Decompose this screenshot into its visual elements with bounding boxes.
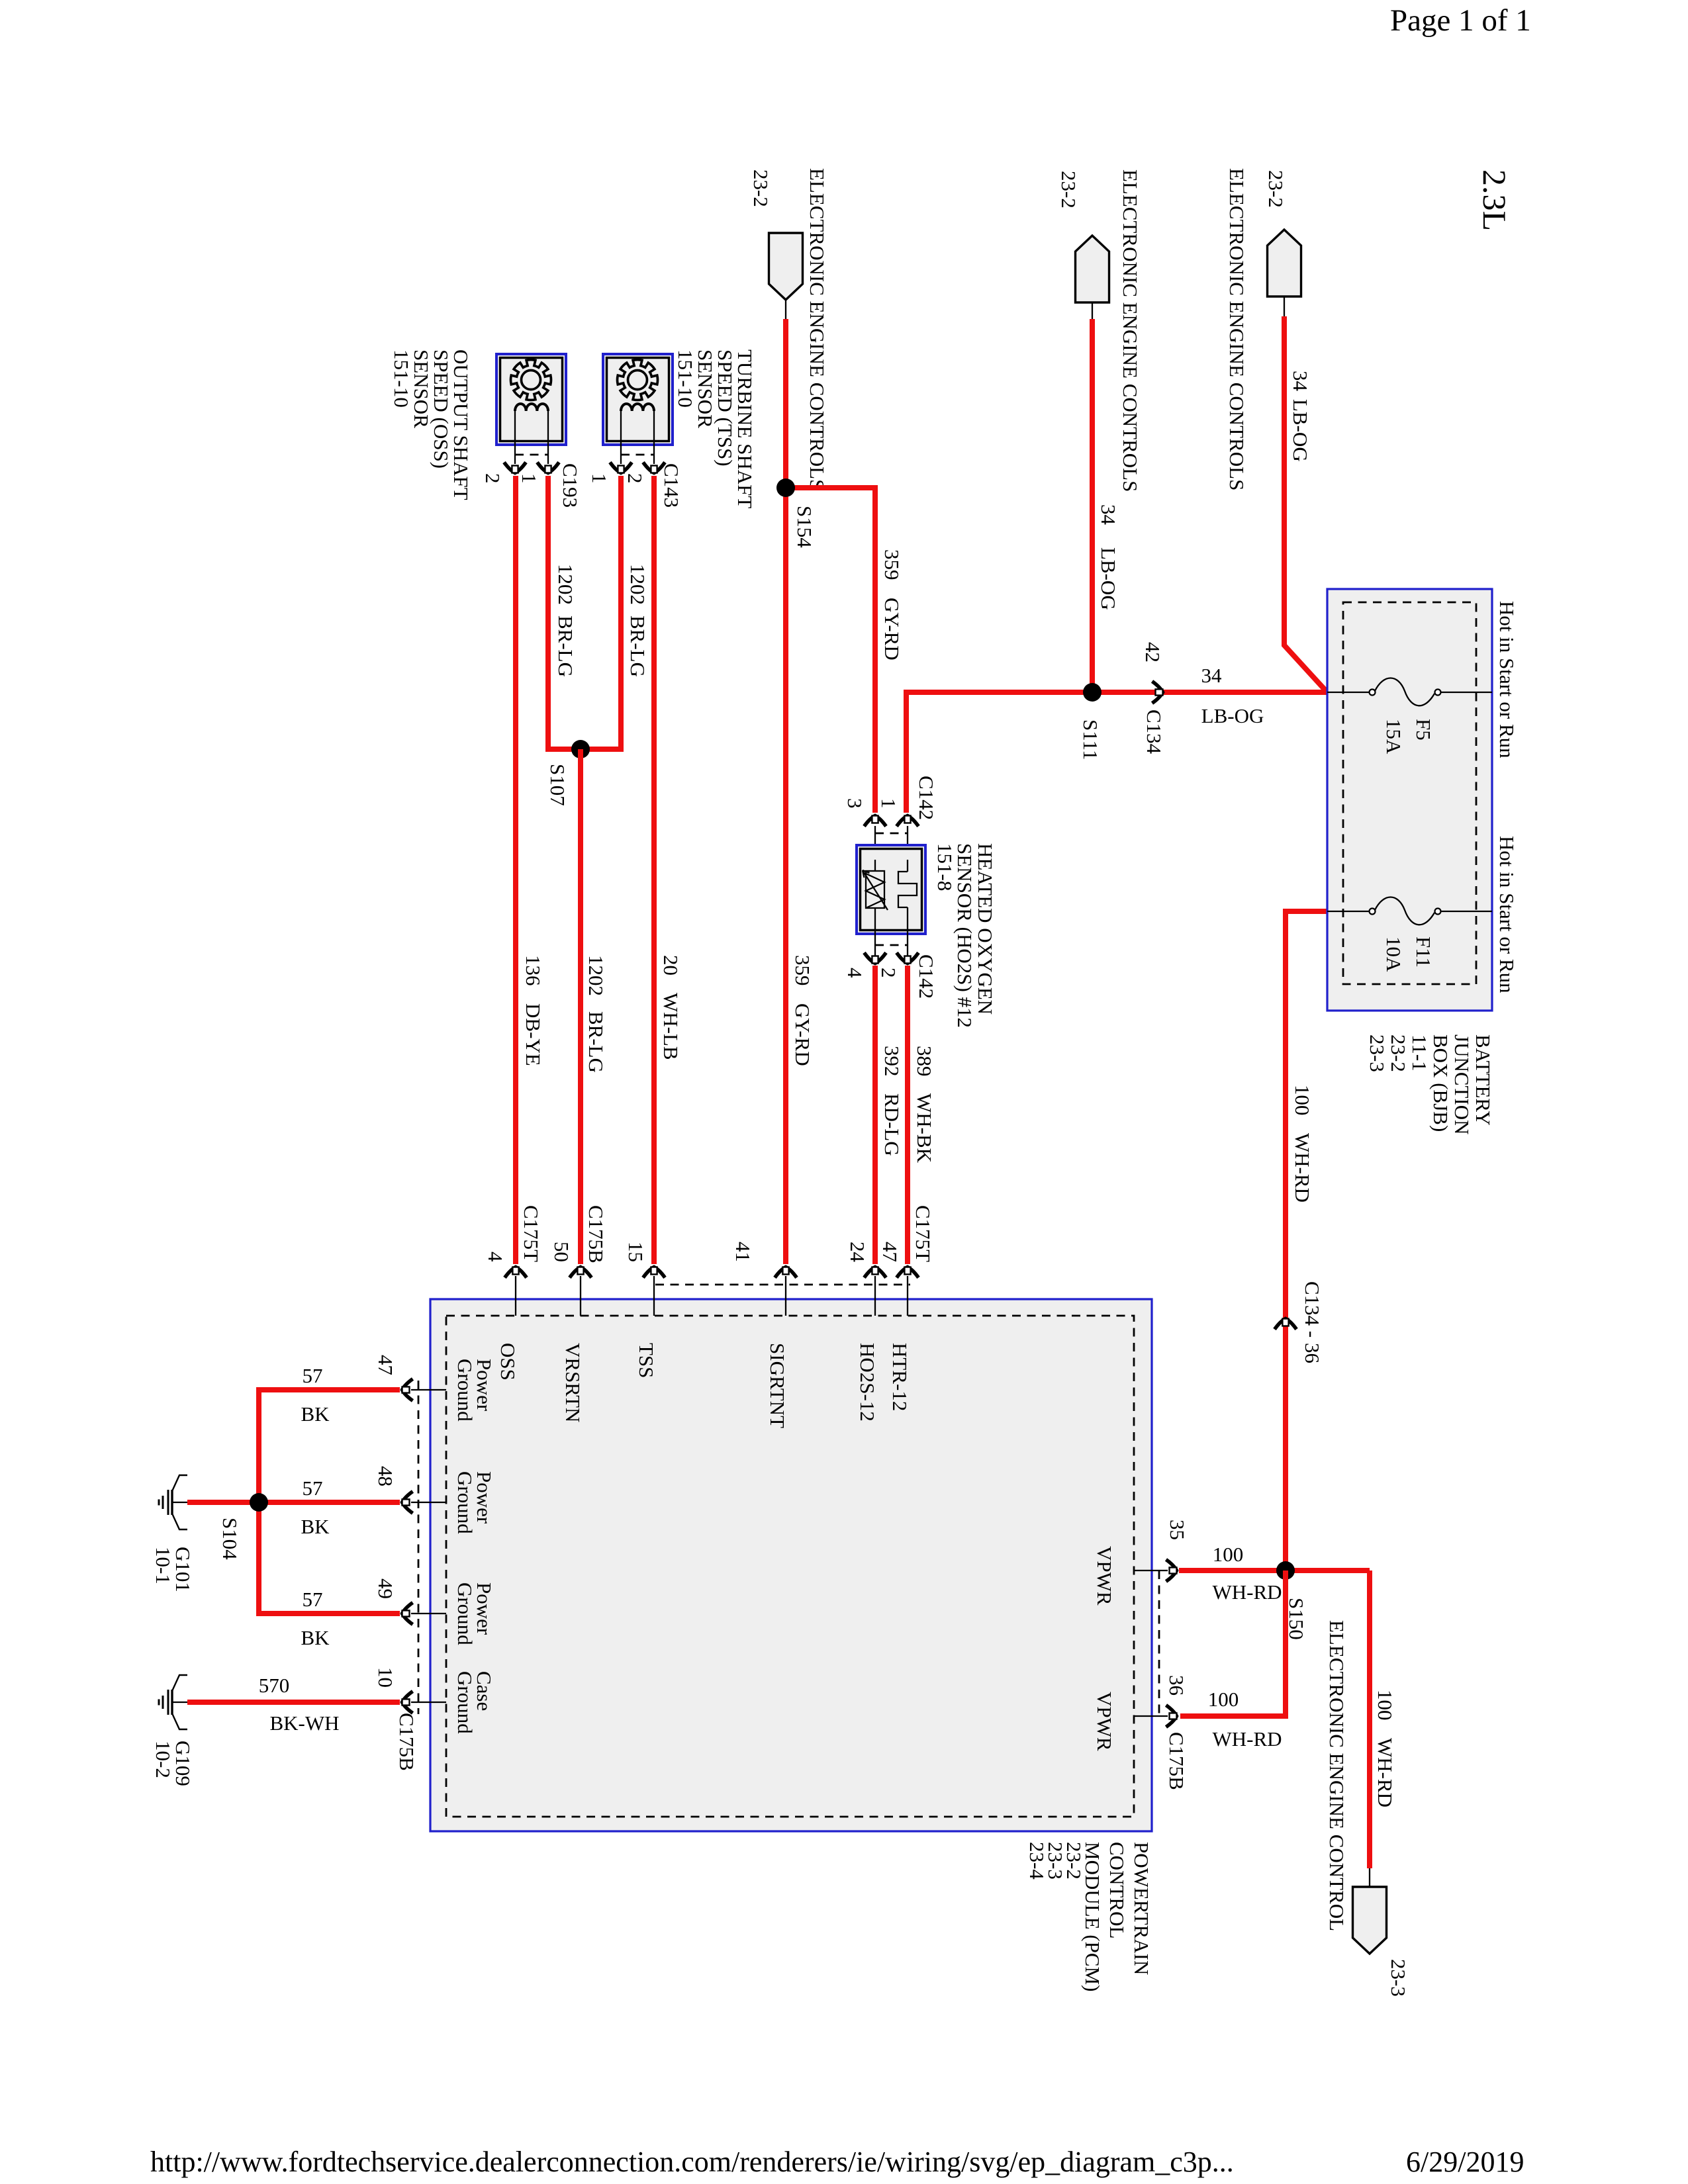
svg-text:57: 57 [303, 1588, 323, 1611]
svg-text:48: 48 [374, 1466, 397, 1486]
svg-text:Ground: Ground [453, 1671, 477, 1734]
svg-text:10-2: 10-2 [152, 1741, 175, 1778]
svg-text:ELECTRONIC ENGINE CONTROL: ELECTRONIC ENGINE CONTROL [1325, 1620, 1348, 1931]
svg-text:POWERTRAIN: POWERTRAIN [1130, 1842, 1153, 1975]
PCM pin 24 (HO2S-12) [865, 1267, 886, 1278]
wire stem pennant2 [1092, 302, 1093, 319]
fuse F11 10A [1327, 911, 1369, 912]
svg-text:50: 50 [550, 1242, 573, 1262]
sensor OSS box [496, 354, 566, 445]
OSS leads [514, 411, 516, 464]
svg-text:JUNCTION: JUNCTION [1450, 1034, 1474, 1135]
TSS coil [621, 404, 654, 411]
svg-text:BATTERY: BATTERY [1472, 1034, 1495, 1126]
node S107 [571, 740, 590, 758]
ground G109 [159, 1675, 187, 1729]
svg-text:151-10: 151-10 [674, 349, 697, 408]
svg-text:2: 2 [624, 473, 647, 484]
svg-text:Ground: Ground [453, 1359, 477, 1422]
wire 389 WH-BK HO2S C142-2 to PCM pin 47 [905, 966, 910, 1264]
OSS coil [515, 404, 548, 411]
svg-text:23-4: 23-4 [1025, 1842, 1049, 1880]
svg-text:BK: BK [301, 1626, 330, 1649]
PCM pin 41 (SIGRTNT) [775, 1267, 797, 1278]
svg-text:BK: BK [301, 1515, 330, 1538]
node S111 [1083, 683, 1102, 702]
svg-text:11-1: 11-1 [1408, 1034, 1431, 1071]
svg-text:WH-RD: WH-RD [1374, 1738, 1397, 1807]
svg-text:2.3L: 2.3L [1476, 169, 1513, 231]
svg-text:Page 1 of 1: Page 1 of 1 [1390, 3, 1531, 38]
PCM pin 4 (OSS) [505, 1267, 527, 1278]
PCM pin 35 (VPWR) [1166, 1560, 1177, 1582]
svg-text:C134 - 36: C134 - 36 [1301, 1281, 1324, 1363]
HO2S sensing element (crossed box with arrow) [866, 871, 884, 908]
svg-text:1: 1 [877, 798, 900, 809]
svg-text:WH-BK: WH-BK [913, 1093, 936, 1163]
svg-text:LB-OG: LB-OG [1201, 704, 1264, 727]
PCM pin 49 (Power Ground) [402, 1603, 413, 1625]
HO2S heater element (meander) [898, 872, 917, 907]
svg-text:LB-OG: LB-OG [1097, 547, 1120, 610]
svg-text:WH-RD: WH-RD [1212, 1727, 1282, 1751]
svg-text:C175B: C175B [395, 1713, 418, 1771]
svg-text:TSS: TSS [635, 1343, 658, 1378]
off-page connector arrow 23-2 (to S111 / ELECTRONIC ENGINE CONTROLS) [1076, 236, 1109, 302]
wire 34 LB-OG pennant2 to S111 [1090, 319, 1095, 692]
svg-text:42: 42 [1141, 642, 1164, 662]
connector C142 bottom pins [865, 953, 886, 964]
svg-text:151-10: 151-10 [390, 349, 413, 408]
svg-text:57: 57 [303, 1477, 323, 1500]
svg-text:BR-LG: BR-LG [626, 615, 649, 677]
svg-text:WH-LB: WH-LB [659, 993, 682, 1060]
svg-text:DB-YE: DB-YE [522, 1003, 545, 1066]
wire 100 WH-RD S150 down to pin 36 [1180, 1570, 1286, 1716]
svg-text:Ground: Ground [453, 1471, 477, 1534]
connector C134 arrow (42) [1152, 682, 1163, 704]
svg-text:15A: 15A [1382, 719, 1405, 754]
connector C175B right dashed boundary [1158, 1570, 1160, 1716]
svg-text:C134: C134 [1143, 709, 1166, 754]
svg-text:100: 100 [1374, 1690, 1397, 1721]
svg-text:24: 24 [846, 1242, 869, 1263]
svg-text:23-2: 23-2 [1387, 1034, 1410, 1072]
wire stem pennant3 [1284, 296, 1285, 316]
wire stem pennant1 [785, 300, 786, 319]
node S104 [250, 1493, 268, 1512]
ground G101 [159, 1475, 187, 1529]
svg-text:47: 47 [374, 1355, 397, 1375]
svg-text:47: 47 [878, 1242, 902, 1262]
svg-text:C175B: C175B [585, 1205, 608, 1263]
connector C193 pins [504, 463, 526, 473]
svg-text:49: 49 [374, 1578, 397, 1599]
svg-text:F5: F5 [1412, 719, 1435, 741]
wire 392 RD-LG HO2S C142-4 to PCM pin 24 [872, 966, 878, 1264]
svg-text:6/29/2019: 6/29/2019 [1406, 2146, 1524, 2178]
svg-text:23-2: 23-2 [1264, 170, 1288, 208]
OSS gear icon [511, 360, 551, 400]
svg-text:34: 34 [1097, 504, 1120, 525]
svg-text:100: 100 [1208, 1688, 1239, 1711]
svg-text:S104: S104 [218, 1518, 242, 1560]
svg-text:1: 1 [588, 473, 611, 484]
svg-text:41: 41 [731, 1242, 755, 1262]
svg-text:15: 15 [624, 1242, 647, 1262]
svg-text:HTR-12: HTR-12 [888, 1343, 912, 1411]
svg-text:S111: S111 [1079, 719, 1102, 760]
wire 1202 BR-LG OSS-1 to S107 [548, 476, 581, 749]
wire 359 GY-RD branch S154 to HO2S C142-3 [786, 488, 875, 813]
svg-text:2: 2 [481, 473, 504, 484]
svg-text:ELECTRONIC ENGINE CONTROLS: ELECTRONIC ENGINE CONTROLS [1119, 169, 1142, 492]
svg-text:23-3: 23-3 [1366, 1034, 1389, 1072]
PCM pin 47 (Power Ground) [402, 1379, 413, 1401]
wire 34 LB-OG horizontal S111 to BJB, and down to HO2S C142-1 [906, 692, 1327, 813]
wire 1202 BR-LG TSS-2 to S107 [581, 476, 621, 749]
svg-text:36: 36 [1165, 1675, 1188, 1696]
svg-text:RD-LG: RD-LG [880, 1093, 904, 1156]
svg-text:34: 34 [1201, 664, 1223, 687]
svg-text:SIGRTNT: SIGRTNT [766, 1343, 789, 1428]
svg-text:http://www.fordtechservice.dea: http://www.fordtechservice.dealerconnect… [150, 2146, 1234, 2178]
svg-text:10-1: 10-1 [152, 1547, 175, 1584]
svg-text:136: 136 [522, 955, 545, 986]
svg-text:2: 2 [877, 968, 900, 978]
svg-text:3: 3 [843, 798, 867, 809]
wire 136 DB-YE OSS-2 to PCM pin 4 [513, 476, 518, 1264]
wire 20 WH-LB TSS-1 to PCM pin 15 [651, 476, 657, 1264]
svg-text:Ground: Ground [453, 1582, 477, 1645]
svg-text:23-2: 23-2 [749, 169, 773, 207]
PCM pin 47 (HTR-12) [897, 1267, 919, 1278]
svg-text:57: 57 [303, 1364, 323, 1387]
svg-text:VRSRTN: VRSRTN [561, 1343, 585, 1422]
svg-text:C143: C143 [660, 463, 683, 508]
C142 bottom leads [874, 920, 876, 956]
svg-text:ELECTRONIC ENGINE CONTROLS: ELECTRONIC ENGINE CONTROLS [1225, 168, 1248, 490]
svg-text:392: 392 [880, 1046, 904, 1077]
svg-text:10: 10 [374, 1667, 397, 1688]
svg-text:C175B: C175B [1165, 1732, 1188, 1790]
PCM pin 36 (VPWR) [1166, 1706, 1177, 1727]
wire 359 GY-RD pennant1 to PCM pin 41 SIGRTNT [783, 319, 788, 1264]
connector C134-36 arrow [1275, 1319, 1297, 1330]
svg-text:C193: C193 [559, 463, 582, 508]
svg-text:389: 389 [913, 1046, 936, 1077]
wire 34 LB-OG pennant3 down and diagonal into BJB F5 [1284, 316, 1327, 692]
svg-text:BOX (BJB): BOX (BJB) [1429, 1034, 1452, 1132]
connector C175 top dashed boundary [655, 1284, 910, 1286]
svg-text:C142: C142 [915, 954, 938, 999]
svg-text:1: 1 [518, 473, 541, 484]
wire 1202 BR-LG S107 to PCM pin 50 [578, 749, 583, 1264]
TSS leads [620, 411, 622, 464]
svg-text:BK-WH: BK-WH [269, 1711, 339, 1735]
svg-text:VPWR: VPWR [1093, 1546, 1116, 1606]
svg-text:CONTROL: CONTROL [1105, 1842, 1129, 1938]
svg-text:23-2: 23-2 [1057, 171, 1080, 208]
wire 100 WH-RD S150 to PCM pin 35 [1179, 1568, 1370, 1573]
PCM pin 15 (TSS) [643, 1267, 665, 1278]
off-page connector arrow 23-2 (to F5 / ELECTRONIC ENGINE CONTROLS) [1268, 230, 1301, 296]
svg-text:S107: S107 [546, 764, 569, 806]
svg-text:23-3: 23-3 [1387, 1959, 1410, 1997]
svg-text:WH-RD: WH-RD [1212, 1580, 1282, 1604]
PCM pin 10 (Case Ground) [402, 1692, 413, 1713]
svg-text:1202: 1202 [585, 955, 608, 996]
svg-text:F11: F11 [1412, 936, 1435, 968]
svg-text:C175T: C175T [520, 1205, 543, 1262]
svg-text:S150: S150 [1285, 1598, 1308, 1640]
svg-text:4: 4 [843, 968, 867, 978]
svg-text:35: 35 [1166, 1520, 1189, 1540]
wire 570 BK-WH to case ground [187, 1700, 400, 1705]
PCM pin 50 (VRSRTN) [570, 1267, 592, 1278]
svg-text:LB-OG: LB-OG [1289, 399, 1312, 462]
PCM pin 48 (Power Ground) [402, 1492, 413, 1514]
fuse F5 15A [1327, 692, 1369, 693]
svg-text:34: 34 [1289, 371, 1312, 392]
off-page connector arrow 23-2 (to S154 / ELECTRONIC ENGINE CONTROLS) [769, 233, 803, 300]
svg-text:359: 359 [791, 955, 814, 986]
connector C175B left dashed boundary [418, 1381, 420, 1714]
node S150 [1276, 1561, 1295, 1580]
sensor HO2S box [857, 845, 925, 934]
svg-text:100: 100 [1213, 1543, 1244, 1566]
TSS gear icon [618, 360, 658, 400]
svg-text:1202: 1202 [626, 564, 649, 605]
svg-text:570: 570 [259, 1674, 290, 1697]
node S154 [776, 478, 795, 497]
svg-text:GY-RD: GY-RD [880, 598, 904, 660]
svg-text:100: 100 [1291, 1085, 1314, 1116]
battery junction box BJB [1327, 589, 1492, 1011]
svg-text:BR-LG: BR-LG [554, 615, 577, 677]
connector C142 top pins [865, 816, 886, 827]
svg-text:20: 20 [659, 955, 682, 976]
svg-text:1202: 1202 [554, 564, 577, 605]
wire 100 WH-RD BJB F11 down to S150 [1286, 911, 1327, 1570]
svg-text:ELECTRONIC ENGINE CONTROLS: ELECTRONIC ENGINE CONTROLS [806, 168, 829, 490]
svg-text:WH-RD: WH-RD [1291, 1133, 1314, 1203]
svg-text:HEATED OXYGEN: HEATED OXYGEN [974, 843, 997, 1015]
svg-text:HO2S-12: HO2S-12 [856, 1343, 879, 1422]
connector C143 pins [610, 463, 632, 473]
sensor TSS box [603, 354, 673, 445]
svg-text:Hot in Start or Run: Hot in Start or Run [1495, 601, 1519, 758]
svg-text:10A: 10A [1382, 936, 1405, 972]
svg-text:359: 359 [880, 549, 904, 580]
svg-text:GY-RD: GY-RD [791, 1003, 814, 1066]
svg-text:OSS: OSS [496, 1343, 520, 1381]
svg-text:4: 4 [484, 1251, 507, 1262]
svg-text:C175T: C175T [912, 1205, 935, 1262]
svg-text:S154: S154 [793, 506, 816, 548]
svg-text:VPWR: VPWR [1093, 1692, 1116, 1751]
svg-text:C142: C142 [915, 776, 938, 820]
wire 100 WH-RD branch down to bottom pennant [1367, 1570, 1372, 1868]
powertrain control module PCM box [430, 1299, 1152, 1831]
off-page connector arrow 23-3 (ELECTRONIC ENGINE CONTROL) [1369, 1868, 1370, 1887]
svg-text:Hot in Start or Run: Hot in Start or Run [1495, 836, 1519, 993]
svg-text:BR-LG: BR-LG [585, 1011, 608, 1073]
svg-text:151-8: 151-8 [933, 843, 957, 891]
svg-text:BK: BK [301, 1402, 330, 1426]
ground wires 57 BK to S104 [259, 1390, 400, 1614]
